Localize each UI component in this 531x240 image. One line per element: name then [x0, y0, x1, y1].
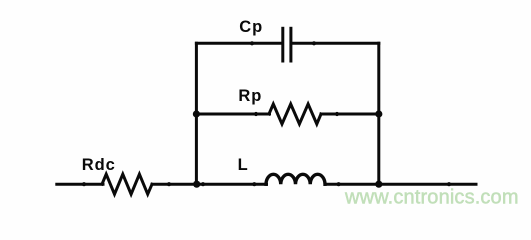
- pin tick L right: [337, 182, 341, 186]
- wire: main line between Rdc and inductor L: [152, 183, 267, 186]
- pin tick Rp left: [254, 112, 258, 116]
- pin tick L left: [252, 182, 256, 186]
- wire: middle branch left of Rp: [196, 113, 269, 116]
- pin tick output lead: [447, 182, 451, 186]
- node junction dot: left vertical / main line: [193, 181, 200, 188]
- capacitor Cp plates: [283, 27, 291, 63]
- svg-text:www.cntronics.com: www.cntronics.com: [344, 187, 519, 209]
- svg-text:Rdc: Rdc: [82, 156, 116, 174]
- pin tick Cp right: [312, 41, 316, 45]
- pin tick Rdc left: [82, 182, 86, 186]
- pin tick Rp right: [335, 112, 339, 116]
- pin tick Cp left: [250, 41, 254, 45]
- wire: main line left lead: [57, 183, 103, 186]
- pin tick Rdc right: [167, 182, 171, 186]
- svg-text:Cp: Cp: [239, 18, 263, 36]
- wire: main line right of inductor to output: [325, 183, 476, 186]
- svg-text:L: L: [238, 156, 249, 174]
- wire: middle branch right of Rp: [321, 113, 379, 116]
- resistor Rdc: [102, 174, 152, 194]
- wire: top branch left of Cp: [196, 42, 281, 45]
- node junction dot: right vertical / Rp branch: [375, 110, 382, 117]
- inductor L: [266, 174, 325, 184]
- wire: left vertical branch: [195, 43, 198, 184]
- resistor Rp: [269, 104, 321, 124]
- node junction dot: left vertical / Rp branch: [193, 110, 200, 117]
- svg-text:Rp: Rp: [238, 87, 262, 105]
- wire: right vertical branch: [377, 43, 380, 184]
- wire: top branch right of Cp: [292, 42, 378, 45]
- node junction dot: right vertical / main line: [375, 181, 382, 188]
- pin tick main line after junction: [201, 182, 205, 186]
